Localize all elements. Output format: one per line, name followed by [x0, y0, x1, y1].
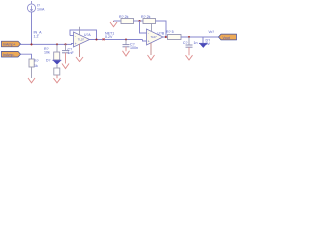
wire: current source down to node [31, 12, 33, 44]
svg-text:Vo?: Vo? [209, 30, 215, 34]
wire into - input [70, 35, 74, 37]
ground arrow under C2 [123, 51, 130, 56]
svg-text:InAmp-: InAmp- [3, 53, 15, 57]
op-amp U1B [147, 29, 164, 45]
wire: port P2 down to R3 [21, 54, 32, 59]
lead into C1 [65, 44, 67, 50]
resistor R5 (horizontal box) [143, 19, 156, 24]
svg-text:1n: 1n [194, 41, 198, 45]
junction dot C3 [188, 36, 190, 38]
svg-text:D?: D? [46, 59, 50, 63]
port P1 (left top) [2, 41, 21, 47]
op-amp U1B V- power stub [150, 43, 152, 55]
junction dot col B [64, 43, 66, 45]
op-amp U1B V+ power stub [151, 23, 153, 32]
lead into R1 [56, 44, 58, 51]
op-amp U1A [74, 32, 90, 47]
red lead to arrow [56, 75, 58, 78]
svg-text:1.2: 1.2 [34, 34, 39, 38]
rail to right drop [156, 21, 167, 37]
svg-text:1mA: 1mA [37, 8, 45, 12]
op-amp U1A V+ power stub [79, 27, 81, 35]
svg-text:InAmp+: InAmp+ [3, 43, 16, 47]
drop from fb node to - input [140, 21, 147, 33]
cap C2 label [130, 42, 138, 50]
svg-text:U?A: U?A [84, 33, 91, 37]
svg-text:C?: C? [183, 41, 188, 45]
kink from U1A output into U1B + input [143, 40, 147, 42]
lead into C3 [188, 37, 190, 45]
svg-text:10k: 10k [44, 51, 50, 55]
svg-text:Vout: Vout [223, 36, 230, 40]
junction dot col A [56, 43, 58, 45]
wire: port P1 to opamp + input [21, 43, 74, 46]
svg-text:+: + [148, 40, 150, 44]
capacitor C3 [186, 45, 193, 47]
svg-text:100n: 100n [130, 46, 138, 50]
resistor R3 label [34, 59, 39, 68]
output wire U1B [163, 36, 168, 38]
op-amp U1A V- power stub [79, 44, 81, 57]
resistor R1 label (left of col A) [44, 47, 50, 55]
drop to signal ground (blue) [202, 37, 204, 43]
feedback rail of U1B [114, 20, 122, 22]
ground arrow under U1A [76, 57, 83, 62]
net label at U1A output [105, 31, 114, 39]
resistor R4 (horizontal box) [121, 19, 134, 24]
capacitor C2 [123, 45, 130, 47]
red stem under C3 [188, 47, 190, 55]
no-ERC marker [103, 38, 105, 40]
lead into C2 [125, 40, 127, 45]
wire R4 to node [134, 20, 144, 22]
junction node A (current source / port1) [30, 43, 32, 45]
decoupling cap C2 junction [125, 38, 127, 40]
junction dot output/fb [165, 36, 167, 38]
port P2 (left bottom) [2, 51, 21, 57]
red stem under C2 [125, 47, 127, 51]
ground arrow under C1 [62, 64, 69, 69]
resistor R6 (horizontal box) [168, 35, 182, 40]
red stem under C1 [65, 53, 67, 64]
current source I1 [27, 1, 35, 12]
resistor R3 (vertical box) [29, 59, 34, 67]
port P3 (right) [219, 34, 237, 40]
wire R6 onward [181, 36, 219, 38]
signal ground triangle (blue) under R1 [53, 60, 62, 64]
svg-text:5V: 5V [206, 42, 211, 46]
svg-text:+: + [75, 42, 77, 46]
label right of blue ground [206, 39, 211, 47]
svg-text:U?B: U?B [158, 31, 165, 35]
resistor R1 (vertical box) [54, 52, 60, 60]
op-amp U1A output wire to U1B [90, 39, 143, 41]
svg-text:TL07: TL07 [78, 37, 85, 41]
cap C3 labels [183, 41, 198, 45]
svg-text:R?: R? [34, 59, 39, 63]
svg-text:TL07: TL07 [151, 35, 158, 39]
svg-text:-: - [148, 31, 149, 35]
cap C1 label [68, 47, 75, 55]
ground arrow under C3 [186, 55, 193, 60]
component box B1 (below triangle) [54, 68, 60, 75]
svg-text:R? 5: R? 5 [166, 30, 174, 34]
capacitor C1 [62, 51, 69, 53]
signal ground triangle (blue) right [199, 43, 208, 48]
ground arrow under box B1 [54, 78, 61, 83]
ground arrow under U1B [148, 55, 155, 60]
junction dot feedback tap [95, 38, 97, 40]
svg-text:0.2V: 0.2V [105, 35, 113, 39]
junction dot fb node [138, 20, 140, 22]
current source label [37, 3, 45, 11]
wire: R3 to ground arrow [31, 67, 33, 78]
svg-text:-: - [75, 34, 76, 38]
red power arrow at rail left [113, 21, 115, 22]
ground arrow under R3 (red open arrow) [28, 78, 35, 83]
op-amp U1A feedback rail [70, 30, 97, 40]
net label on vertical wire [34, 31, 43, 39]
lead triangle to box2 [56, 65, 58, 68]
